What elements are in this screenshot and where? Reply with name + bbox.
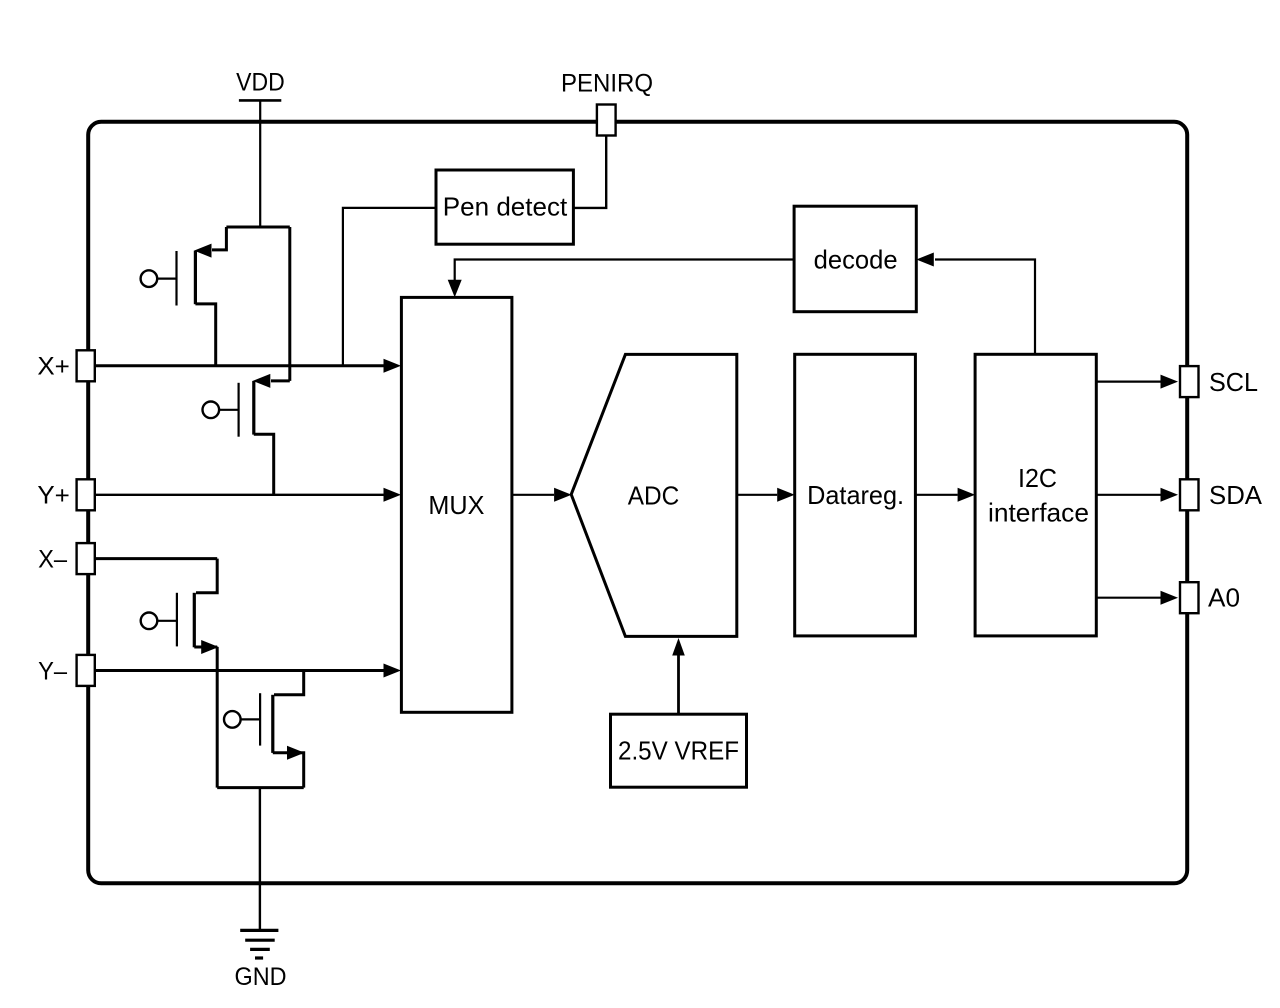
pin Y+ [77,479,95,510]
pin Y- [77,655,95,686]
wire I2C to SDA [1096,494,1160,496]
decode box [794,206,916,312]
pin X- [77,543,95,574]
svg-text:decode: decode [814,245,898,275]
svg-text:ADC: ADC [628,480,680,510]
VDD supply bar [239,99,281,102]
MUX box [401,297,512,712]
svg-text:MUX: MUX [428,490,484,520]
svg-text:Datareg.: Datareg. [807,480,904,510]
Datareg box [795,354,916,636]
svg-text:Y+: Y+ [37,482,70,510]
wire I2C to decode [935,260,1035,355]
Pen detect box [436,170,573,244]
svg-text:GND: GND [235,963,287,991]
pin X+ [77,350,95,381]
wire I2C to SCL [1096,381,1160,383]
pin A0 [1180,582,1199,613]
wire Y- to MUX [95,669,384,672]
wire rail to ground [259,788,261,931]
svg-text:VDD: VDD [236,68,285,96]
transistor Q3 [141,559,219,788]
PENIRQ pin [597,105,616,136]
wire PENIRQ to Pen detect [573,136,606,208]
wire Pen detect input from X+ node [343,208,435,366]
wire Y+ to MUX [95,494,384,496]
wire I2C to A0 [1096,597,1160,599]
wire Q3/Q4 source rail [217,786,304,789]
svg-text:Y–: Y– [38,657,67,685]
wire VDD to Q1 rail [259,100,261,227]
pin SCL [1180,366,1199,397]
I2C interface box [975,354,1096,636]
svg-text:2.5V VREF: 2.5V VREF [618,736,739,766]
op-amp style ADC block [571,354,737,636]
ground [240,930,278,958]
wire VREF to ADC [677,655,680,714]
2.5V VREF box [611,714,747,787]
svg-text:interface: interface [988,498,1089,528]
svg-text:A0: A0 [1208,583,1240,613]
pin SDA [1180,479,1199,510]
svg-text:X+: X+ [37,352,70,380]
svg-text:SDA: SDA [1209,480,1263,510]
svg-text:X–: X– [38,545,67,573]
svg-text:PENIRQ: PENIRQ [561,70,653,98]
transistor Q1 [141,227,290,381]
svg-text:Pen detect: Pen detect [443,192,568,222]
wire X- to Q3 [95,557,217,560]
transistor Q2 [203,374,290,495]
wire Datareg to I2C [915,494,957,496]
wire MUX to ADC [512,494,554,496]
svg-text:SCL: SCL [1209,367,1258,397]
transistor Q4 [224,671,305,788]
wire ADC to Datareg [737,494,777,496]
wire decode to MUX [455,260,794,281]
chip outline [88,122,1187,884]
wire X+ to MUX [95,364,384,367]
svg-text:I2C: I2C [1018,463,1057,493]
